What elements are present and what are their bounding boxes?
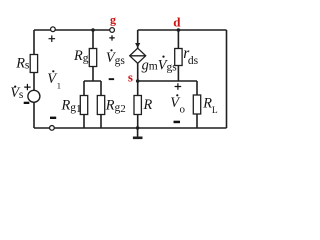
wire RL branch: [196, 81, 198, 128]
wire dependent-source branch: [137, 30, 139, 128]
wire right top horizontal: [138, 29, 227, 31]
controlled source gmVgs (diamond with arrow): [130, 43, 177, 73]
wire mid horizontal s-node to RL: [138, 80, 197, 82]
minus of Vgs: [109, 78, 114, 80]
resistor R: [134, 96, 153, 115]
resistor rds: [175, 45, 199, 67]
node V1 label: [47, 70, 61, 90]
minus of V1: [50, 117, 56, 119]
svg-text:d: d: [173, 14, 181, 29]
resistor RL: [193, 95, 218, 116]
wire left vertical branch: [33, 30, 35, 128]
wire Rg2 branch: [100, 81, 102, 128]
node s junction dot: [136, 79, 140, 83]
resistor Rs: [15, 55, 37, 73]
node Vgs label: [106, 49, 125, 67]
junction Rg top: [91, 28, 95, 32]
node Vo label with plus/minus: [170, 83, 185, 123]
wire Rg1 branch: [83, 81, 85, 128]
junction ground: [136, 126, 140, 130]
port terminal bottom (circle): [50, 126, 55, 131]
terminal g (circle): [110, 28, 115, 33]
plus of V1: [49, 35, 56, 42]
svg-text:g: g: [110, 12, 116, 26]
wire rds branch: [177, 30, 179, 81]
wire top-left horizontal: [34, 29, 110, 31]
wire Rg branch vertical: [92, 30, 94, 81]
wire right edge vertical: [226, 30, 228, 128]
plus of Vgs: [109, 35, 114, 40]
resistor Rg2: [97, 96, 125, 115]
wire bottom rail: [34, 127, 227, 129]
svg-text:R: R: [143, 97, 153, 113]
port terminal top (circle): [51, 27, 56, 32]
resistor Rg: [73, 48, 97, 67]
wire tee bar Rg1-Rg2: [84, 80, 101, 82]
resistor Rg1: [61, 96, 88, 115]
junction d: [177, 28, 181, 32]
ground: [133, 128, 143, 138]
svg-text:s: s: [128, 69, 133, 84]
source Vs (circle): [10, 84, 40, 104]
